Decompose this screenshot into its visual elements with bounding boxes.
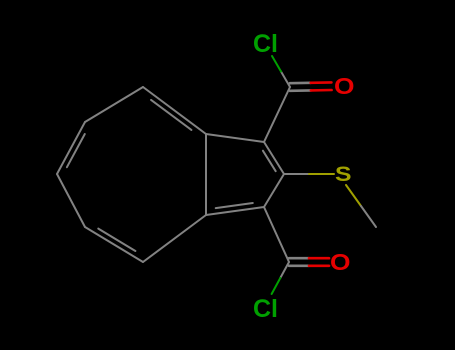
wire: fused ring bond C3a-C8a — [205, 134, 207, 215]
svg-text:Cl: Cl — [253, 295, 278, 323]
wire: ring bond C2-C3 — [264, 174, 284, 207]
wire: ring bond C3-C3a — [206, 207, 264, 215]
wire: azulene ring bond C1-C2 — [264, 142, 284, 174]
wire: C2-S bond sulfur half (yellow) — [309, 173, 334, 175]
wire: inner line of double bond C6=C7 — [67, 134, 85, 167]
wire: ring bond C8a-C1 — [206, 134, 264, 142]
wire: bottom C=O double bond line 1 carbon half (gray) — [289, 264, 309, 267]
wire: bottom C=O double bond line 1 oxygen half (red) — [309, 264, 329, 267]
wire: S-CH3 bond sulfur half (yellow) — [346, 185, 361, 206]
wire: bottom C=O double bond line 2 carbon half (gray) — [289, 257, 309, 260]
wire: top C=O double bond line 1 oxygen half (red) — [311, 89, 332, 92]
wire: ring bond C5-C4 — [85, 227, 143, 262]
wire: bond C3 to bottom carbonyl carbon — [264, 207, 289, 262]
wire: top C-Cl bond carbon half (gray) — [281, 72, 290, 88]
wire: bottom C-Cl bond chlorine half (green) — [272, 278, 281, 294]
wire: S-CH3 bond carbon half (gray) — [361, 206, 376, 227]
wire: inner line of double bond C3=C3a — [216, 203, 253, 208]
wire: ring bond C8-C7 — [85, 87, 143, 122]
wire: top C-Cl bond chlorine half (green) — [272, 56, 281, 72]
wire: top C=O double bond line 2 oxygen half (red) — [311, 81, 332, 84]
svg-text:O: O — [330, 249, 351, 275]
wire: ring bond C6-C5 — [57, 174, 85, 227]
svg-text:O: O — [334, 73, 355, 99]
wire: C2-S bond carbon half (gray) — [284, 173, 309, 175]
wire: inner line of double bond C4=C5 — [98, 229, 135, 251]
svg-text:S: S — [335, 163, 352, 186]
wire: bond C1 to top carbonyl carbon — [264, 87, 290, 142]
wire: bottom C=O double bond line 2 oxygen half (red) — [309, 257, 329, 260]
wire: ring bond C7-C6 — [57, 122, 85, 174]
wire: top C=O double bond line 2 carbon half (gray) — [290, 82, 311, 85]
wire: bottom C-Cl bond carbon half (gray) — [280, 262, 289, 278]
wire: ring bond C8a-C8 — [143, 87, 206, 134]
wire: ring bond C4-C3a — [143, 215, 206, 262]
wire: top C=O double bond line 1 carbon half (gray) — [290, 89, 311, 92]
wire: inner line of double bond C1=C2 — [263, 151, 276, 172]
svg-text:Cl: Cl — [253, 30, 278, 58]
wire: inner line of double bond C8=C8a — [151, 100, 191, 130]
